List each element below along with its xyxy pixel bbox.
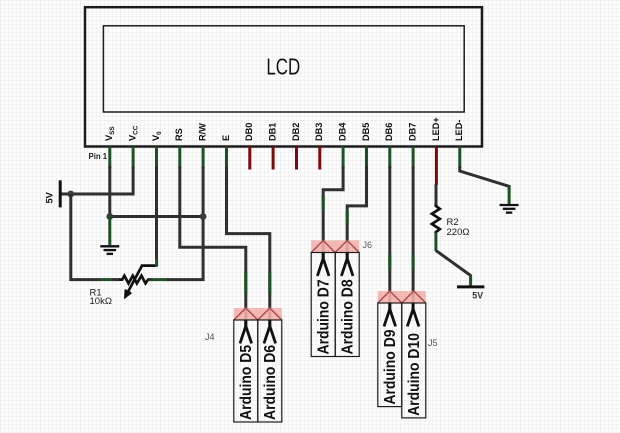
junction dot ground right <box>200 213 207 220</box>
pin leg DB7 (green) <box>412 147 415 169</box>
connector J5 header band <box>378 291 426 303</box>
pin leg DB4 (green) <box>342 147 345 169</box>
pin label Vcc <box>128 125 140 141</box>
svg-text:DB1: DB1 <box>268 123 278 141</box>
svg-text:J6: J6 <box>363 240 373 250</box>
wire Vcc to 5V junction <box>71 166 133 194</box>
Pin 1 label <box>89 152 108 161</box>
connector J6 pin 2 box (Arduino D8) <box>335 253 359 357</box>
connector J4 header band <box>234 308 282 320</box>
wire E green segment near J4 <box>268 272 271 295</box>
LCD title label <box>266 54 300 80</box>
svg-text:DB2: DB2 <box>291 123 301 141</box>
svg-text:DB4: DB4 <box>338 122 348 141</box>
svg-text:DB5: DB5 <box>361 123 371 141</box>
wire DB4 to J6 pin 1 <box>323 166 343 259</box>
R1 right leg (green) <box>151 278 168 281</box>
pin leg DB2 (unconnected, red) <box>295 147 298 170</box>
R2 bottom leg (green) <box>434 233 437 252</box>
pin leg DB5 (green) <box>365 147 368 169</box>
J4 label <box>205 332 215 342</box>
J6 label <box>363 240 373 250</box>
pin label LED- <box>454 120 464 141</box>
svg-text:Arduino D5: Arduino D5 <box>238 345 255 420</box>
pin label RS <box>174 128 184 141</box>
pin leg R/W (green) <box>202 147 205 169</box>
wire 5V junction down to R1 left <box>71 194 100 280</box>
wire RS green segment near J4 <box>244 272 247 295</box>
5V supply symbol (right) <box>457 287 484 301</box>
connector J4 pin 1 box (Arduino D5) <box>234 320 258 422</box>
pin label DB7 <box>408 123 418 141</box>
wire junction to 5V rail symbol <box>60 193 71 196</box>
svg-text:Arduino D10: Arduino D10 <box>406 333 423 416</box>
svg-text:Arduino D6: Arduino D6 <box>262 345 279 420</box>
J5 label <box>428 338 438 348</box>
svg-text:Arduino D9: Arduino D9 <box>382 329 399 404</box>
wire LED+ down to R2 <box>435 184 438 206</box>
wire ground bus horizontal <box>110 215 203 218</box>
wire DB5 green segment <box>346 211 349 225</box>
svg-text:Arduino D7: Arduino D7 <box>316 279 333 354</box>
svg-text:220Ω: 220Ω <box>447 227 470 238</box>
pin label LED+ <box>431 117 441 141</box>
pin leg V0 (green) <box>155 147 158 169</box>
wire R/W down to ground junction <box>202 166 205 217</box>
connector J4 pin 2 box (Arduino D6) <box>258 320 282 422</box>
svg-text:LED+: LED+ <box>431 117 441 141</box>
pin label E <box>221 135 231 141</box>
svg-text:DB7: DB7 <box>408 123 418 141</box>
pin label DB3 <box>314 123 324 141</box>
wire RS to J4 pin 1 <box>180 166 246 326</box>
junction dot 5V net <box>67 191 74 198</box>
pin label DB1 <box>268 123 278 141</box>
svg-text:J4: J4 <box>205 332 215 342</box>
svg-text:DB6: DB6 <box>384 123 394 141</box>
R1 left leg (green) <box>99 278 113 281</box>
junction dot ground left <box>106 213 113 220</box>
svg-text:R/W: R/W <box>198 123 208 141</box>
pin leg E (green) <box>225 147 228 169</box>
connector J5 pin 1 box (Arduino D9) <box>378 303 402 407</box>
svg-text:LCD: LCD <box>266 54 300 80</box>
wire DB5 to J6 pin 2 <box>347 166 366 259</box>
pin leg LED+ (red) <box>435 147 438 186</box>
wire DB7 green segment <box>412 254 415 270</box>
R1 label <box>90 287 112 307</box>
LCD screen inner rectangle <box>103 26 464 112</box>
pin label DB5 <box>361 123 371 141</box>
pin leg DB1 (unconnected, red) <box>272 147 275 170</box>
pin leg Vcc (green) <box>132 147 135 169</box>
svg-text:10kΩ: 10kΩ <box>90 296 112 307</box>
svg-text:DB0: DB0 <box>244 123 254 141</box>
connector J6 header band <box>311 241 359 253</box>
pin label V0 <box>151 131 163 141</box>
J5 pin 1 fork contact <box>384 303 396 326</box>
resistor R2 zigzag body <box>432 205 440 234</box>
wire DB7 to J5 pin 2 <box>412 166 415 309</box>
R1 wiper leg (green) <box>155 258 158 267</box>
pin label Vss <box>104 126 116 141</box>
pin label DB6 <box>384 123 394 141</box>
ground symbol left leg (green) <box>108 217 111 246</box>
pin leg DB6 (green) <box>388 147 391 169</box>
svg-text:Arduino D8: Arduino D8 <box>340 279 357 354</box>
J5 pin 2 fork contact <box>407 303 419 326</box>
wire LED- to ground (right) <box>460 166 509 190</box>
pin leg DB0 (unconnected, red) <box>248 147 251 170</box>
R1 wiper arrow <box>126 266 157 297</box>
svg-text:Pin 1: Pin 1 <box>89 152 108 161</box>
pin leg RS (green) <box>178 147 181 169</box>
pin label DB0 <box>244 123 254 141</box>
J4 pin 2 fork contact <box>264 320 276 343</box>
wire R1 left leg to body <box>112 278 120 281</box>
R2 label <box>447 217 470 238</box>
5V symbol right leg (green) <box>469 275 472 287</box>
wire V0 down to R1 wiper <box>155 166 158 259</box>
connector J6 pin 1 box (Arduino D7) <box>311 253 335 357</box>
svg-text:5V: 5V <box>472 290 483 300</box>
5V supply symbol (left) <box>45 180 61 207</box>
svg-text:RS: RS <box>174 128 184 141</box>
LCD U1 outer body <box>85 7 482 146</box>
wire R2 to 5V (right) <box>436 251 471 276</box>
wire DB6 to J5 pin 1 <box>388 166 391 309</box>
pin label DB2 <box>291 123 301 141</box>
ground symbol right leg (green) <box>508 186 511 204</box>
pin label DB4 <box>338 122 348 141</box>
wire DB6 green segment <box>388 254 391 270</box>
connector J5 pin 2 box (Arduino D10) <box>402 303 426 418</box>
wire R1 right up to R/W ground net <box>148 217 203 280</box>
ground symbol left <box>100 246 119 254</box>
pin leg DB3 (unconnected, red) <box>318 147 321 170</box>
svg-text:J5: J5 <box>428 338 438 348</box>
J4 pin 1 fork contact <box>240 320 252 343</box>
svg-text:E: E <box>221 135 231 141</box>
svg-text:LED-: LED- <box>454 120 464 141</box>
wire DB4 green segment <box>322 195 325 210</box>
potentiometer R1 zigzag body <box>119 276 151 284</box>
svg-text:DB3: DB3 <box>314 123 324 141</box>
pin leg LED- (green) <box>458 147 461 169</box>
wire Vss down to ground junction <box>108 166 111 217</box>
J6 pin 1 fork contact <box>317 253 329 276</box>
wire E to J4 pin 2 <box>227 166 270 326</box>
pin leg Vss (pin 1, green) <box>108 147 111 169</box>
svg-text:5V: 5V <box>45 191 55 203</box>
pin label R/W <box>198 123 208 141</box>
ground symbol right <box>500 205 519 213</box>
J6 pin 2 fork contact <box>341 253 353 276</box>
